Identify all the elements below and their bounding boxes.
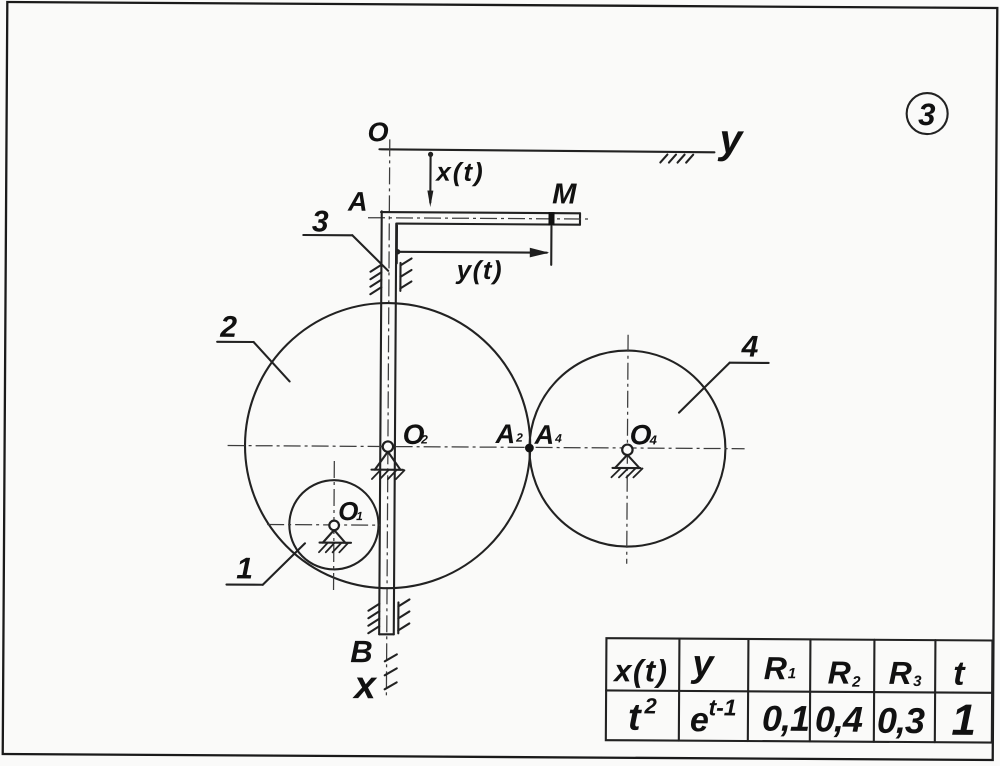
svg-text:x: x xyxy=(352,664,377,707)
pivot support O2 xyxy=(371,452,404,480)
upper guide left hatching xyxy=(370,265,381,295)
x axis hatch ticks below B xyxy=(385,654,397,689)
svg-text:1: 1 xyxy=(356,509,363,523)
svg-text:4: 4 xyxy=(741,330,759,363)
x(t) dimension arrow xyxy=(427,152,433,207)
gear wheel 1 xyxy=(289,480,379,570)
vertical centerline wheel 4 xyxy=(627,335,628,564)
svg-text:2: 2 xyxy=(420,433,428,447)
svg-text:3: 3 xyxy=(918,97,935,132)
svg-text:2: 2 xyxy=(219,311,237,344)
lower guide left hatching xyxy=(368,604,379,634)
rod arm centerline xyxy=(368,218,592,219)
vertical centerline through rod xyxy=(386,139,389,696)
svg-text:A: A xyxy=(347,187,368,217)
svg-text:t: t xyxy=(628,697,642,739)
svg-text:e: e xyxy=(690,701,709,739)
horizontal arm of rod 3 xyxy=(381,212,580,225)
svg-text:x(t): x(t) xyxy=(434,157,485,187)
svg-text:y: y xyxy=(690,643,715,685)
y axis line xyxy=(379,149,714,152)
y(t) dimension arrow xyxy=(395,247,549,258)
svg-text:3: 3 xyxy=(913,673,922,690)
pivot support O4 xyxy=(611,455,642,478)
gear wheel 2 xyxy=(244,302,531,589)
svg-text:A: A xyxy=(534,420,555,450)
svg-text:0,1: 0,1 xyxy=(762,698,809,739)
svg-text:2: 2 xyxy=(643,693,657,718)
svg-text:R: R xyxy=(889,655,912,691)
extension line below M xyxy=(550,226,552,264)
svg-text:4: 4 xyxy=(649,432,658,447)
svg-text:1: 1 xyxy=(788,665,796,682)
vertical centerline wheel 1 xyxy=(333,461,336,590)
svg-text:1: 1 xyxy=(236,552,253,585)
svg-text:O: O xyxy=(367,117,388,147)
svg-text:0,4: 0,4 xyxy=(815,698,863,739)
svg-text:t-1: t-1 xyxy=(708,694,736,720)
svg-text:y(t): y(t) xyxy=(455,255,504,285)
svg-text:2: 2 xyxy=(851,674,861,691)
upper guide right wall xyxy=(400,258,411,291)
svg-text:t: t xyxy=(953,655,966,693)
variant number circled 3 xyxy=(907,93,948,134)
pivot support O1 xyxy=(319,530,351,552)
svg-text:R: R xyxy=(764,650,787,686)
horizontal centerline wheel 1 xyxy=(267,523,380,526)
gear wheel 4 xyxy=(529,350,726,547)
extension line below A corner xyxy=(396,225,398,263)
svg-text:0,3: 0,3 xyxy=(877,700,925,741)
ground hatching on y axis xyxy=(660,154,693,162)
svg-text:3: 3 xyxy=(312,205,329,238)
svg-text:M: M xyxy=(552,178,577,210)
contact node A2/A4 xyxy=(525,444,534,453)
svg-text:A: A xyxy=(495,419,516,449)
svg-text:1: 1 xyxy=(951,696,976,745)
svg-text:2: 2 xyxy=(515,431,523,445)
data table xyxy=(606,638,993,742)
svg-text:R: R xyxy=(828,655,851,691)
svg-text:4: 4 xyxy=(554,431,562,445)
svg-text:x(t): x(t) xyxy=(612,653,668,688)
lower guide right wall xyxy=(398,599,409,633)
svg-text:O: O xyxy=(630,419,652,450)
point M tick on rod xyxy=(548,212,554,225)
svg-text:y: y xyxy=(717,116,744,162)
horizontal centerline O2-A2-O4 xyxy=(228,446,745,449)
vertical rod 3 (rack) xyxy=(379,211,396,634)
